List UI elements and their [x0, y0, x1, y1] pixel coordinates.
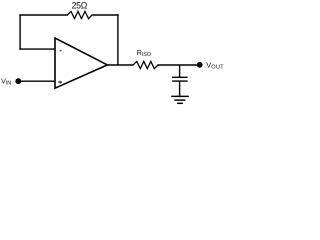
op-amp inverting input marker (-)	[60, 50, 62, 52]
svg-text:25Ω: 25Ω	[72, 1, 88, 11]
resistor RISO	[133, 61, 158, 68]
node VIN terminal dot	[15, 78, 21, 84]
wire: op-amp output	[107, 64, 134, 66]
wire: inverting input	[19, 48, 55, 50]
wire: capacitor to ground vertical	[179, 81, 181, 96]
capacitor C (load)	[172, 77, 187, 81]
wire: VIN to non-inverting input	[18, 80, 55, 82]
wire: feedback left vertical	[19, 14, 21, 50]
node VOUT terminal dot	[197, 62, 203, 68]
op-amp non-inverting input marker (+)	[58, 81, 62, 83]
wire: feedback top left segment	[19, 14, 68, 16]
wire: feedback right vertical	[117, 14, 119, 65]
resistor 25 ohm (feedback)	[67, 11, 92, 18]
ground	[171, 96, 189, 103]
wire: RISO to VOUT node	[158, 64, 198, 66]
wire: feedback top right segment	[92, 14, 119, 16]
wire: capacitor branch vertical	[179, 65, 181, 77]
op-amp U1	[55, 38, 107, 88]
